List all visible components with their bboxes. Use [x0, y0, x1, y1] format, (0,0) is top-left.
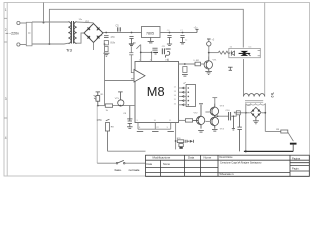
wire: earth drop to border [43, 3, 45, 23]
zone numbers [5, 8, 7, 140]
wire: mains leg right [264, 3, 266, 97]
svg-text:M8: M8 [147, 84, 165, 99]
svg-text:Nome: Nome [204, 156, 212, 160]
capacitor C8 [127, 106, 132, 127]
resistor R1 [105, 46, 109, 51]
switch S1 [116, 162, 118, 164]
svg-text:Pagina: Pagina [292, 157, 301, 161]
resistor R8 vertical [105, 119, 109, 151]
transformer Tr3 [68, 21, 76, 44]
svg-text:bass.: bass. [115, 168, 122, 172]
ground pin [148, 38, 154, 43]
zone tick marks [4, 18, 7, 118]
regulator U2 7805 [142, 27, 161, 38]
wire: load line [234, 113, 281, 132]
phototransistor Q5 [118, 92, 124, 106]
transformer Tr2 [244, 94, 265, 97]
capacitor C2 [129, 37, 133, 44]
ground under Q2 [198, 131, 204, 133]
wire: mcu top pin 3 [167, 59, 169, 62]
svg-text:Tr2: Tr2 [270, 92, 274, 98]
ic U1 M8 [135, 62, 179, 123]
optotriac U3 [229, 48, 260, 57]
svg-text:NTC: NTC [97, 119, 102, 122]
capacitor plate bar [166, 48, 171, 50]
wire: bridge minus [93, 43, 95, 51]
wire: dc rail to 7805 [103, 32, 142, 34]
svg-text:Modificazione: Modificazione [153, 156, 171, 160]
resistor R7 [105, 104, 112, 107]
thermistor squiggle [165, 51, 169, 57]
ground near opto [228, 67, 233, 70]
capacitor C1 [104, 36, 109, 38]
sheet background [0, 0, 320, 180]
resistor R6 zigzag [218, 51, 230, 54]
svg-text:1: 1 [5, 8, 7, 12]
ground [129, 44, 134, 46]
mcu bottom pins [138, 123, 171, 130]
resistor R3 [183, 67, 187, 73]
diode D3 [190, 140, 193, 143]
capacitor on pin2 [152, 48, 157, 50]
wire: +5 to opto led [209, 39, 219, 56]
wire: mains to transformer [32, 22, 68, 44]
transistor Q1 [204, 57, 212, 72]
wire: down from sense [96, 106, 98, 164]
wire: aux chain [175, 123, 177, 150]
svg-text:Tr3: Tr3 [66, 48, 73, 53]
resistor R12 [179, 144, 183, 147]
wire: pair supply [205, 98, 217, 122]
transistor Q3 [210, 103, 218, 117]
capacitor C12 [185, 140, 189, 143]
capacitor C9 [237, 115, 242, 152]
svg-text:Wheanate ru: Wheanate ru [220, 173, 235, 176]
pin numbers top [139, 60, 168, 62]
capacitor C4 [180, 36, 184, 42]
capacitor C3 [167, 36, 171, 44]
bridge rectifier VD1 [84, 24, 103, 43]
svg-text:~220v: ~220v [9, 32, 19, 36]
wire: secondary to bridge2 [246, 103, 265, 151]
reset arrow [136, 45, 140, 49]
value labels [79, 19, 280, 140]
wire: plus input branch [129, 47, 133, 74]
thermal switch [288, 132, 294, 141]
svg-text:4: 4 [5, 136, 7, 140]
wire: secondary to bridge [77, 22, 94, 43]
resistor R11 [177, 140, 183, 143]
triac (bold) [240, 51, 248, 56]
wire: top rail [49, 9, 243, 47]
wire: sense line into mcu left [98, 105, 135, 107]
svg-text:Data: Data [188, 156, 194, 160]
border frame [4, 3, 310, 177]
svg-text:Crescione Cogn'aA Fpajare Saet: Crescione Cogn'aA Fpajare Saetapuno [220, 161, 262, 164]
svg-text:Descrizione: Descrizione [220, 156, 234, 159]
ground C11 [232, 116, 234, 128]
svg-text:normale: normale [129, 168, 140, 172]
junction [43, 22, 45, 24]
wire: output node [215, 115, 229, 117]
supply pin circle [207, 42, 211, 46]
+5v flag [195, 29, 198, 32]
svg-text:8.8v: 8.8v [111, 42, 116, 45]
wire: mcu top pin 1 [141, 45, 152, 62]
fuse box F2 [236, 111, 240, 115]
bridge rectifier VD2 [251, 107, 261, 117]
ground under Q4 [212, 130, 218, 132]
wire: option line 1 [108, 150, 146, 152]
wire: op-amp sense [105, 44, 135, 106]
op-amp comparator [134, 70, 145, 83]
pin arrows [182, 87, 184, 106]
title block [146, 155, 310, 176]
resistor R9 [281, 130, 288, 133]
ground bridge2 [253, 118, 259, 124]
opto led [231, 51, 234, 56]
wire: bottom return rail [244, 150, 293, 152]
svg-text:VD: VD [100, 94, 103, 96]
connector X2 [186, 85, 195, 107]
capacitor C10 [229, 112, 231, 120]
wire: +5 rail [160, 32, 197, 34]
capacitor vertical plates [162, 48, 164, 54]
terminal X1 [17, 21, 26, 46]
photodiode D2 [94, 92, 100, 106]
svg-text:Nome: Nome [163, 162, 170, 166]
capacitor C5 [118, 27, 120, 31]
transistor Q4 [210, 116, 218, 129]
svg-text:o°: o° [184, 81, 186, 85]
wire: triac main vertical [243, 59, 245, 97]
wires: mcu to connector [179, 88, 187, 105]
ground [103, 53, 109, 56]
svg-text:2: 2 [5, 28, 7, 32]
svg-text:Pagin.: Pagin. [292, 166, 300, 170]
wire: mcu right pin to driver [179, 63, 196, 65]
label ~220v [6, 32, 9, 34]
grounds below mcu [137, 131, 174, 133]
svg-text:Data: Data [147, 162, 153, 166]
fuse box F1 [26, 22, 32, 46]
varistor box [104, 41, 108, 45]
resistor R10 [185, 119, 192, 122]
svg-text:470: 470 [111, 36, 116, 39]
resistor R4 [195, 62, 201, 66]
svg-text:7805: 7805 [146, 31, 154, 35]
wire: option line 2 + switch [97, 162, 145, 164]
svg-text:3: 3 [5, 97, 7, 101]
transistor Q2 [193, 104, 205, 129]
wire: mcu to driver base [179, 119, 186, 121]
